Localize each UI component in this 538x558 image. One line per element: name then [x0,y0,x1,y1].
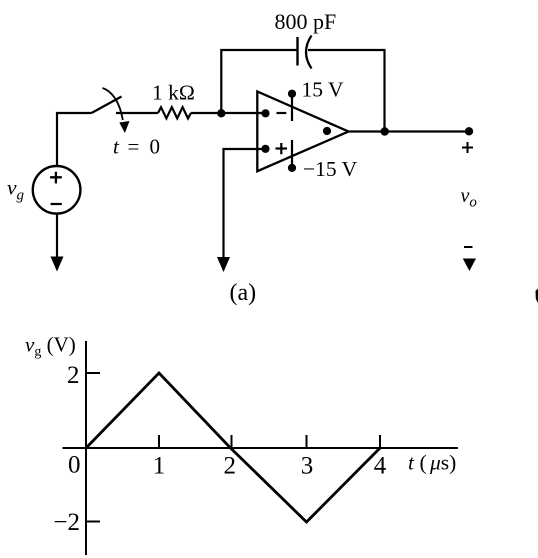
svg-text:vo: vo [461,185,478,211]
svg-text:2: 2 [67,362,80,389]
svg-text:vg (V): vg (V) [25,333,76,360]
svg-text:15 V: 15 V [302,78,344,102]
svg-text:4: 4 [374,453,387,480]
svg-text:−15 V: −15 V [303,157,358,181]
svg-text:t(μs): t(μs) [408,451,456,475]
svg-text:−2: −2 [53,509,80,536]
svg-text:t=0: t=0 [113,135,160,159]
svg-text:vg: vg [7,175,25,203]
svg-text:1 kΩ: 1 kΩ [152,81,195,105]
svg-text:(a): (a) [230,280,257,306]
svg-text:2: 2 [223,453,236,480]
svg-text:0: 0 [68,451,81,478]
svg-text:1: 1 [153,453,166,480]
svg-text:3: 3 [301,453,314,480]
svg-text:800 pF: 800 pF [275,9,337,34]
